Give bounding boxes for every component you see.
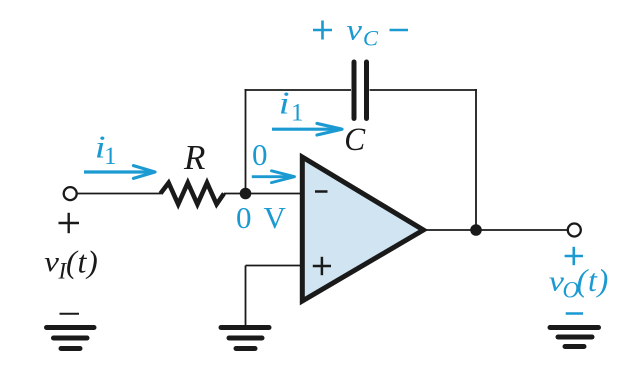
svg-text:(t): (t): [66, 244, 99, 280]
op-amp non-inverting input marker (+): [313, 257, 331, 275]
arrow i1 (feedback current direction): [272, 123, 342, 135]
svg-text:v: v: [347, 13, 363, 46]
wire: op-amp output to output terminal: [423, 229, 568, 231]
wire: feedback vertical left (node up): [245, 89, 247, 194]
label + (vO polarity plus): [565, 247, 583, 265]
label i1 (input current): [95, 129, 117, 170]
capacitor C (right plate): [364, 62, 369, 119]
label i1 (feedback current): [279, 85, 304, 127]
wire: non-inverting input down to ground: [245, 266, 247, 327]
ground: input reference: [47, 328, 95, 349]
svg-text:1: 1: [104, 143, 117, 170]
wire: capacitor to feedback top right: [370, 89, 477, 91]
capacitor C (left plate): [352, 62, 357, 119]
node: inverting input node (virtual ground): [240, 188, 252, 200]
wire: inverting node to op-amp inverting input: [246, 193, 305, 195]
wire: feedback top left to capacitor: [245, 89, 351, 91]
svg-text:V: V: [264, 200, 287, 235]
resistor R: [161, 183, 225, 204]
label - (vI polarity minus): [60, 313, 80, 315]
svg-text:0: 0: [252, 137, 268, 172]
arrow 0 (current into op-amp input): [252, 171, 295, 183]
op-amp inverting input marker (-): [315, 190, 328, 193]
svg-text:R: R: [183, 138, 205, 177]
svg-text:v: v: [44, 246, 59, 277]
svg-text:C: C: [363, 26, 379, 51]
op-amp U1: [302, 157, 423, 301]
svg-text:1: 1: [291, 100, 304, 127]
wire: feedback vertical right (down to output node): [475, 89, 477, 230]
svg-text:0: 0: [236, 200, 252, 235]
arrow i1 (input current direction): [84, 166, 155, 179]
wire: input terminal to resistor R: [77, 193, 162, 195]
terminal: output (open circle): [568, 224, 581, 237]
label vO(t) (output voltage): [549, 262, 609, 302]
label + vC - (capacitor voltage polarity): [313, 13, 408, 51]
node: output: [470, 224, 482, 236]
label + (vI polarity plus): [59, 213, 80, 233]
wire: non-inverting input horizontal: [246, 265, 305, 267]
svg-text:i: i: [279, 85, 290, 121]
label - (vO polarity minus): [566, 312, 583, 315]
wire: resistor to inverting node: [224, 193, 246, 195]
ground: non-inverting input: [221, 328, 269, 349]
label vI(t) (input voltage): [44, 244, 98, 284]
ground: output reference: [550, 328, 599, 347]
terminal: input (open circle): [64, 187, 77, 200]
svg-text:C: C: [344, 120, 365, 157]
svg-text:(t): (t): [577, 262, 610, 298]
